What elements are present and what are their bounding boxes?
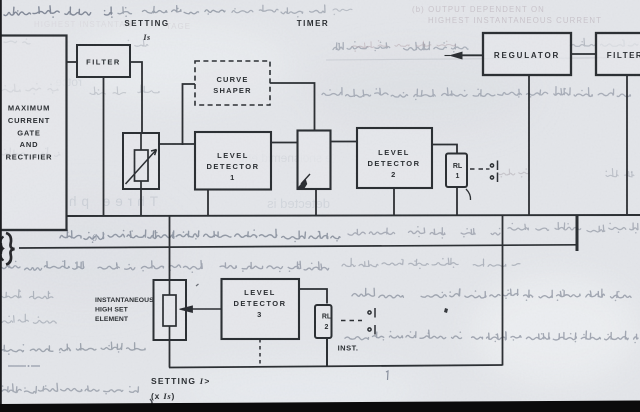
level detector 1 box: [195, 132, 271, 190]
wire regulator bottom to bus: [528, 75, 530, 216]
wire curve shaper left down: [183, 84, 196, 145]
bus line 2: [19, 245, 577, 248]
ink blob right: [444, 308, 448, 313]
pencil dashes bottom-left: [8, 365, 40, 367]
pencil mark bottom: [150, 399, 153, 410]
RL1 tail stroke: [466, 189, 471, 200]
bottom black bar: [0, 401, 640, 412]
level detector 2 box: [357, 128, 432, 188]
RL1 contact symbol: [486, 161, 498, 183]
label INSTANTANEOUS HIGH SET ELEMENT: [95, 297, 154, 323]
wire filter bottom to bus: [103, 77, 105, 216]
wire mixer to LD2: [331, 141, 358, 143]
wire LD1 to mixer: [271, 142, 298, 144]
relay RL2 box: [315, 305, 332, 338]
inst element bottom wire: [169, 340, 171, 368]
filter F2 box: [596, 33, 640, 75]
level detector 3 box: [222, 279, 300, 339]
bottom return wire: [169, 365, 503, 368]
wire mixer bottom to bus: [315, 189, 317, 216]
relay RL1 box: [446, 154, 467, 188]
wire resistor to LD1: [158, 143, 195, 145]
wire resistor bottom to bus: [140, 189, 142, 216]
arrow at mixer corner: [301, 174, 310, 184]
wire block to filter: [67, 61, 78, 63]
RL2 contact symbol: [368, 308, 375, 335]
mixer narrow box: [298, 131, 331, 190]
curve shaper dashed box: [195, 61, 270, 105]
regulator box: [483, 33, 571, 75]
wire filter2 bottom to bus: [626, 75, 628, 216]
LD3 bottom dashed wire: [259, 339, 261, 367]
RL2 dashed contact: [341, 320, 362, 322]
brace left: [1, 233, 15, 265]
wire curve shaper right down: [270, 83, 315, 131]
wire filter right to resistor top: [130, 62, 142, 133]
ghost show-through text (mirrored): [55, 75, 332, 211]
wire regulator to filter2: [571, 53, 596, 55]
left edge dark line: [0, 0, 2, 412]
label SETTING I>: [151, 376, 210, 401]
wire LD2 bottom to bus: [393, 188, 395, 216]
faint pencil rule: [326, 58, 640, 61]
stray mark near curve shaper: [196, 284, 199, 286]
RL2 bottom wire: [326, 339, 328, 366]
variable resistor (thermistor): [123, 133, 159, 189]
bus line 1: [67, 215, 640, 216]
label MAXIMUM CURRENT GATE AND RECTIFIER: [6, 104, 53, 162]
RL1 dashed contact: [470, 168, 486, 170]
thick end tick: [576, 216, 579, 252]
arrow LD3 to element: [192, 308, 222, 310]
pencil mark "1": [386, 371, 388, 380]
long feed down right: [502, 216, 504, 366]
block bottom edge: [0, 229, 67, 231]
inst element feed down: [169, 216, 171, 280]
wire LD2 to RL1: [432, 145, 457, 154]
RL1 bottom wire: [456, 187, 458, 216]
instantaneous high-set element: [154, 280, 187, 340]
filter F1 box: [77, 45, 130, 77]
faint typed ghost captions: [34, 5, 602, 31]
wire LD3 to RL2: [299, 289, 327, 304]
block MAXIMUM CURRENT GATE AND RECTIFIER: [0, 36, 67, 231]
output arrow from regulator: [461, 54, 483, 56]
wire LD1 bottom to bus: [207, 190, 209, 217]
